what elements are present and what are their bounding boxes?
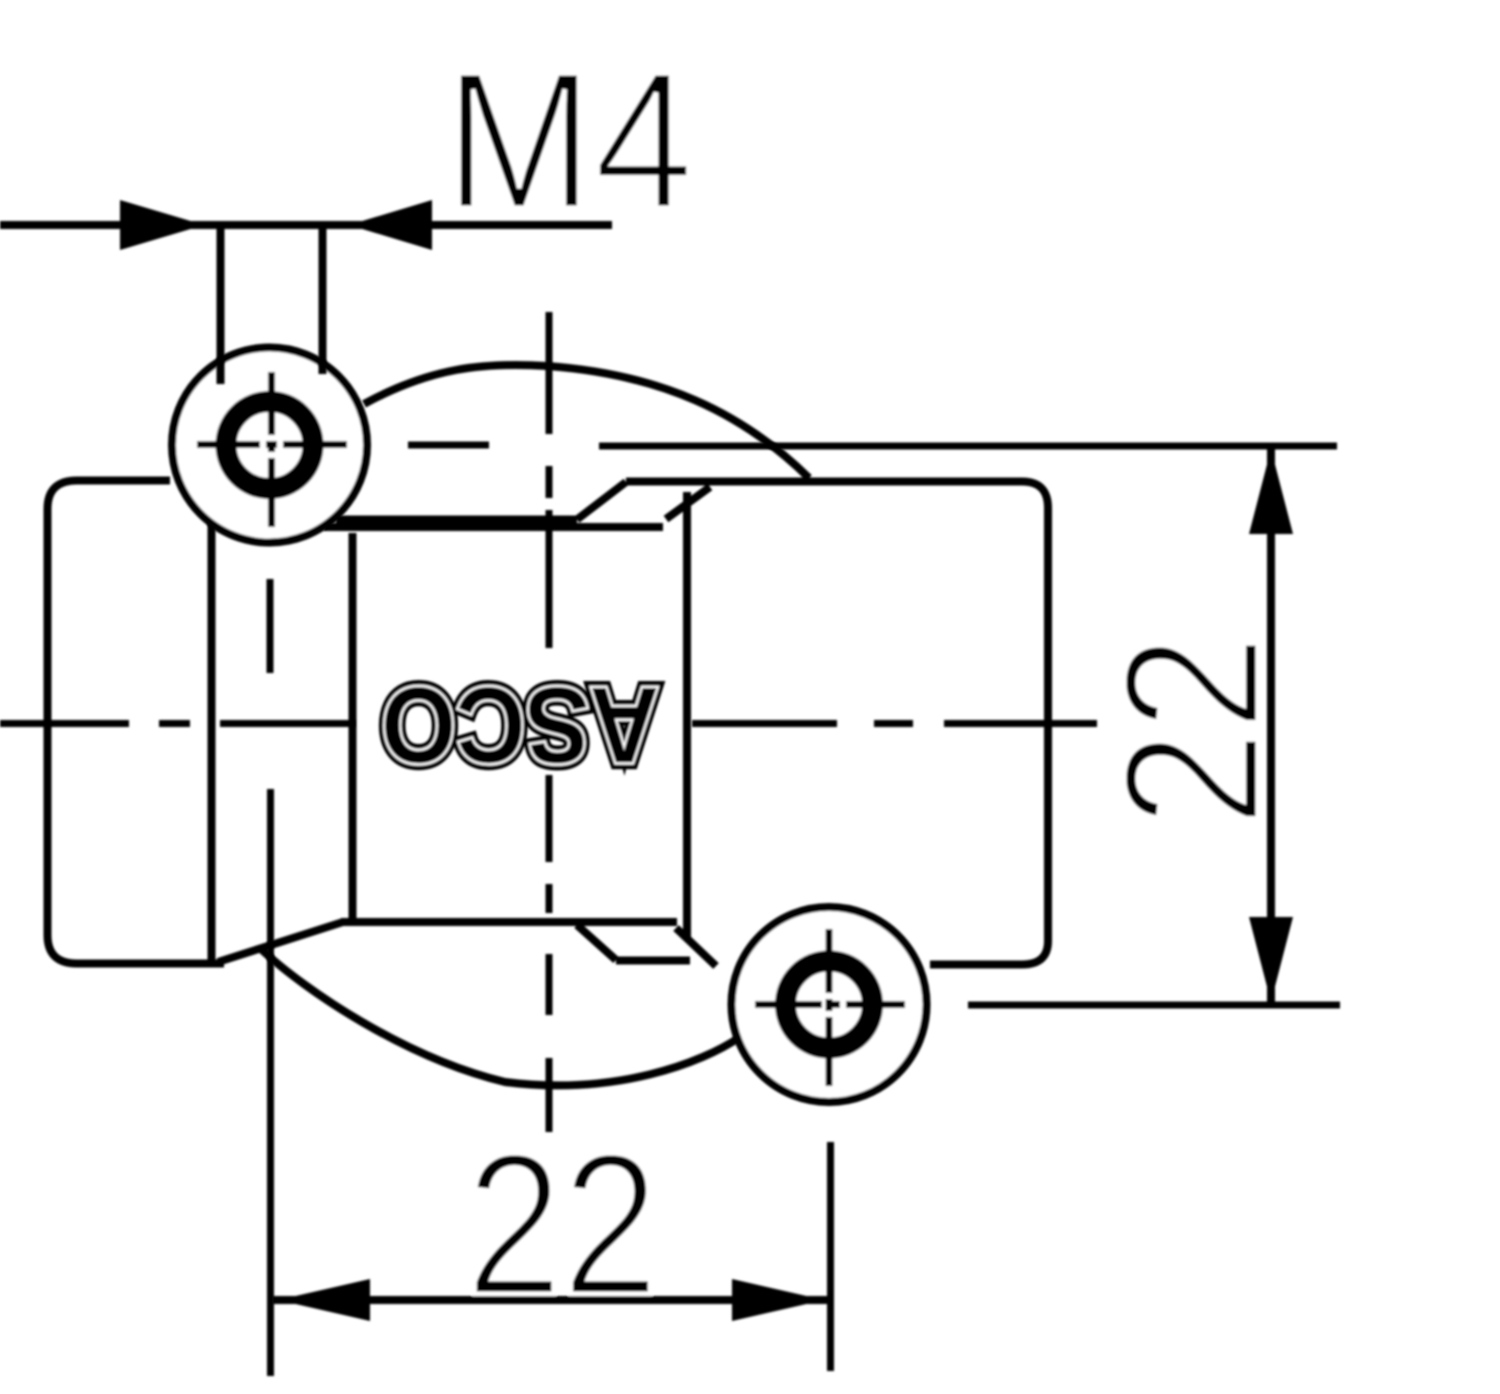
ASCO logo (rotated 180, engraved outline style) <box>381 665 659 786</box>
top bonnet wing arc <box>364 365 809 478</box>
dimension line <box>1267 446 1275 1005</box>
middle body bottom edge <box>341 918 677 926</box>
right body left edge <box>683 492 691 940</box>
top notch diagonal 1 <box>577 482 626 520</box>
right body top edge <box>626 482 1048 509</box>
boss crosshair <box>755 929 905 1086</box>
middle body top edge <box>324 523 663 531</box>
bottom-right boss M4 hole <box>732 907 927 1102</box>
bottom arrowhead <box>1249 917 1293 1002</box>
boss outer circle <box>172 348 367 543</box>
boss crosshair <box>197 372 347 527</box>
dimension line <box>0 221 612 229</box>
vertical central centerline <box>546 312 553 1132</box>
left arrowhead <box>120 200 204 250</box>
right 22 dimension <box>1085 446 1299 1005</box>
right arrowhead <box>732 1279 824 1321</box>
left hole-span extension line (to bottom dimension) <box>267 789 274 1376</box>
mid slab left edge <box>208 523 216 961</box>
horizontal main centerline <box>0 720 1097 727</box>
bottom notch ledge <box>616 957 690 965</box>
dash-dot centerlines <box>0 312 1340 1376</box>
svg-text:M4: M4 <box>444 31 694 250</box>
tapped hole ring <box>226 402 313 489</box>
top M4 dimension <box>0 31 694 384</box>
top-left boss M4 hole <box>172 348 367 543</box>
right extension line <box>319 228 327 374</box>
bottom boss horizontal centerline / extension to right dimension <box>968 1002 1340 1009</box>
right hole-span extension line (to bottom dimension) <box>827 1142 834 1371</box>
bottom 22 dimension <box>272 1111 830 1337</box>
top boss horizontal centerline / extension to right dimension <box>408 445 1337 446</box>
boss outer circle <box>732 907 927 1102</box>
bottom notch diagonal 1 <box>577 925 616 960</box>
top wing lower edge <box>336 516 577 524</box>
left extension line <box>217 228 225 384</box>
top boss vertical centerline dash below <box>267 579 274 673</box>
svg-text:22: 22 <box>1085 635 1299 827</box>
top arrowhead <box>1249 449 1293 534</box>
bottom bonnet wing arc <box>262 950 740 1085</box>
svg-text:ASCO: ASCO <box>381 665 659 786</box>
right body right edge with corners <box>930 508 1048 965</box>
tapped hole ring <box>786 961 873 1048</box>
dimension line <box>272 1296 830 1304</box>
right arrowhead <box>349 200 432 250</box>
left body rounded rectangle <box>48 481 225 964</box>
left arrowhead <box>278 1279 370 1321</box>
bottom notch diagonal 2 <box>676 928 716 966</box>
mid slab right edge <box>349 533 357 920</box>
bottom-left sloped edge <box>218 922 343 962</box>
top notch diagonal 2 <box>666 487 710 519</box>
